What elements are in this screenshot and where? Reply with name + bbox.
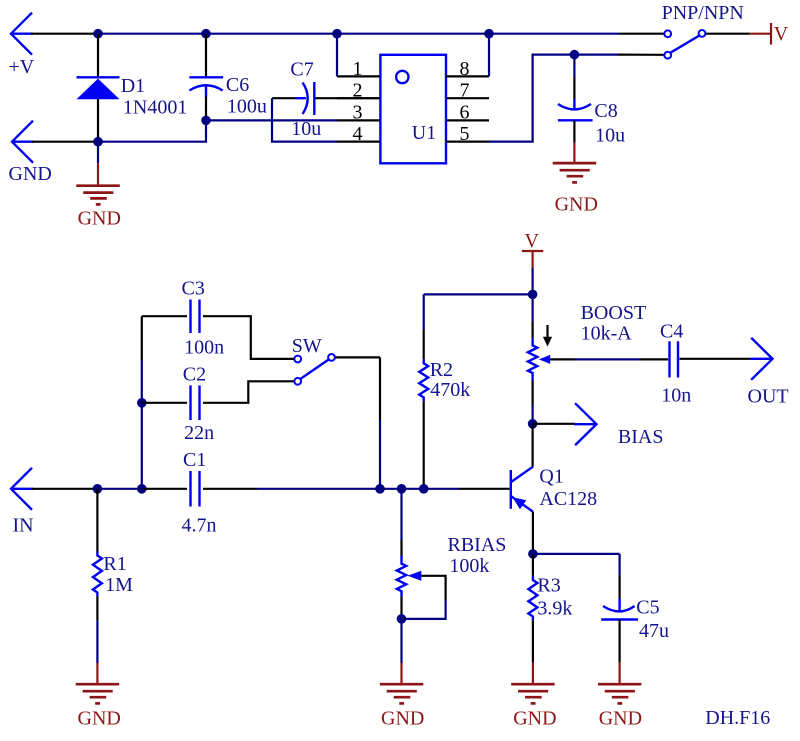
transistor Q1 (511, 467, 533, 512)
wire to BIAS arrow (533, 423, 576, 425)
wire C5 top (618, 554, 620, 576)
svg-text:R3: R3 (537, 575, 560, 597)
pin 3 (337, 119, 380, 121)
svg-text:R2: R2 (430, 359, 453, 381)
ground C8 (553, 163, 597, 182)
wire C8 bottom (573, 120, 575, 142)
black preset arrow (543, 325, 552, 347)
ground R3 (511, 684, 555, 703)
svg-text:GND: GND (513, 708, 556, 730)
wire C6 bottom (205, 97, 207, 121)
wire pin8 up (488, 34, 490, 77)
capacitor C7 (296, 82, 314, 115)
svg-text:1N4001: 1N4001 (123, 97, 187, 119)
wire D1 top (97, 34, 99, 77)
IC U1 box (380, 55, 446, 164)
svg-text:C2: C2 (183, 363, 206, 385)
svg-text:10n: 10n (661, 384, 691, 406)
wire pin1 up (336, 34, 338, 77)
svg-text:GND: GND (599, 708, 642, 730)
port arrow GND left (12, 121, 34, 163)
wire switch to V (706, 33, 750, 35)
wire D1 bottom (97, 99, 99, 142)
capacitor C4 (670, 341, 679, 377)
wire C3 right (203, 316, 294, 359)
wire collector up (531, 424, 533, 467)
wire V to junction (531, 268, 533, 294)
wire R3 top (532, 554, 534, 576)
wire base black (459, 488, 510, 490)
wire emitter to C5 (533, 553, 620, 555)
node C2 left (137, 398, 147, 408)
wire D1 ground stub (97, 142, 99, 164)
node emitter (528, 549, 538, 559)
wire C1 left (142, 488, 187, 490)
svg-text:47u: 47u (639, 620, 669, 642)
svg-text:10k-A: 10k-A (581, 322, 633, 344)
pin 6 (446, 119, 489, 121)
wire top rail black to switch (620, 33, 664, 35)
svg-text:R1: R1 (103, 553, 126, 575)
node C8 rail (570, 50, 580, 60)
svg-text:GND: GND (78, 207, 121, 229)
svg-text:OUT: OUT (748, 386, 789, 408)
pin 8 (446, 75, 489, 77)
wire wiper loop (421, 576, 445, 600)
wire wiper to C4 (550, 358, 575, 360)
potentiometer BOOST 10k-A (528, 338, 537, 380)
switch PNP/NPN (664, 30, 705, 59)
node RBIAS bottom (397, 614, 407, 624)
wire C3 left (142, 315, 187, 317)
svg-text:RBIAS: RBIAS (448, 534, 507, 556)
wire R3 bottom (532, 621, 534, 662)
node C6 bottom (201, 116, 211, 126)
wire gnd rail black (32, 141, 95, 143)
wire pot bottom (531, 381, 533, 406)
wire IN line black (32, 488, 94, 490)
power symbol V bottom (522, 251, 543, 268)
node C2C3 branch (137, 484, 147, 494)
wire emitter down (532, 512, 534, 554)
pot wiper arrow (539, 355, 550, 364)
wire C8 top (573, 55, 575, 77)
svg-text:BOOST: BOOST (581, 302, 647, 324)
wire top rail black segment from +V arrow (31, 33, 95, 35)
wire R2 top (423, 294, 425, 330)
svg-text:V: V (525, 230, 540, 252)
node SW drop (375, 484, 385, 494)
svg-text:22n: 22n (184, 422, 214, 444)
capacitor C6 (189, 77, 223, 97)
svg-text:5: 5 (460, 123, 470, 145)
svg-text:DH.F16: DH.F16 (705, 707, 770, 729)
svg-text:GND: GND (78, 708, 121, 730)
capacitor C1 (191, 471, 200, 507)
pin 1 (337, 75, 380, 77)
svg-text:4.7n: 4.7n (182, 515, 217, 537)
svg-text:GND: GND (381, 708, 424, 730)
svg-text:470k: 470k (430, 379, 470, 401)
diode D1 (77, 77, 120, 99)
wire C5 bottom (618, 620, 620, 663)
ground R1 (76, 684, 120, 703)
svg-text:2: 2 (353, 80, 363, 102)
svg-text:8: 8 (460, 58, 470, 80)
wire C7 right to pin2 (316, 97, 381, 99)
wire C2 left (142, 402, 187, 404)
power symbol V top right (750, 23, 771, 45)
wire pin5 to C8 branch (489, 55, 618, 142)
pot wiper arrow RBIAS (408, 571, 422, 581)
wire R2 bottom (423, 401, 425, 489)
pin 4 (337, 141, 380, 143)
svg-text:IN: IN (13, 515, 34, 537)
port arrow OUT (750, 338, 773, 380)
node BIAS junction (528, 419, 538, 429)
capacitor C2 (191, 385, 200, 420)
node R2 bottom (419, 484, 429, 494)
wire RBIAS ground (400, 619, 402, 663)
svg-text:100u: 100u (227, 96, 267, 118)
wire pot bottom (400, 597, 402, 619)
svg-text:10u: 10u (595, 124, 625, 146)
capacitor C3 (191, 300, 200, 334)
svg-text:C4: C4 (660, 321, 683, 343)
node R1 tap (93, 484, 103, 494)
svg-text:SW: SW (292, 335, 322, 357)
node top rail at pin8 (484, 29, 494, 39)
wire SW to drop (335, 356, 380, 358)
pin 2 (337, 97, 380, 99)
wire gnd rail navy (95, 120, 206, 141)
capacitor C8 (558, 99, 593, 120)
wire C6 top (205, 34, 207, 77)
svg-text:100n: 100n (184, 336, 224, 358)
wire RBIAS top (400, 489, 402, 540)
node V junction (528, 290, 538, 300)
wire pin3 net (206, 119, 337, 121)
svg-text:PNP/NPN: PNP/NPN (662, 2, 744, 24)
potentiometer RBIAS 100k (397, 556, 406, 597)
svg-text:C7: C7 (290, 59, 313, 81)
wire SW drop vertical (379, 357, 381, 420)
node RBIAS tap (397, 484, 407, 494)
resistor R2 (419, 359, 428, 401)
svg-text:U1: U1 (412, 122, 436, 144)
wire C1 right black (203, 488, 257, 490)
node top rail at C6 (201, 29, 211, 39)
pin 7 (446, 97, 489, 99)
wire across to R2 (424, 293, 533, 295)
svg-text:100k: 100k (449, 555, 489, 577)
svg-text:AC128: AC128 (539, 488, 597, 510)
svg-text:1M: 1M (105, 574, 133, 596)
svg-text:GND: GND (9, 163, 52, 185)
ground D1 (76, 186, 120, 205)
resistor R3 (528, 576, 537, 621)
wire C1 right navy to base (257, 488, 459, 490)
svg-text:C6: C6 (226, 74, 249, 96)
svg-text:V: V (774, 23, 789, 45)
ground RBIAS (380, 684, 424, 703)
capacitor C5 (601, 599, 638, 620)
svg-text:6: 6 (460, 102, 470, 124)
svg-text:3.9k: 3.9k (537, 598, 572, 620)
svg-text:10u: 10u (291, 118, 321, 140)
port arrow IN (11, 468, 33, 510)
svg-text:C3: C3 (182, 277, 205, 299)
wire R1 top (96, 489, 98, 552)
svg-text:1: 1 (353, 58, 363, 80)
svg-text:+V: +V (9, 56, 35, 78)
svg-text:D1: D1 (121, 75, 145, 97)
svg-text:C1: C1 (183, 449, 206, 471)
wire R1 bottom (96, 597, 98, 621)
svg-text:Q1: Q1 (539, 466, 563, 488)
node top rail at pin1 (332, 29, 342, 39)
node gnd rail at D1 (93, 137, 103, 147)
node top rail at D1 (93, 29, 103, 39)
svg-text:GND: GND (555, 194, 598, 216)
switch SW (294, 354, 335, 385)
svg-text:4: 4 (353, 123, 363, 145)
svg-text:7: 7 (460, 80, 470, 102)
wire IN line navy (94, 488, 142, 490)
svg-text:C8: C8 (594, 100, 617, 122)
wire C2 right (203, 381, 294, 403)
wire top rail navy 98 to 620 (95, 33, 620, 35)
svg-text:BIAS: BIAS (618, 426, 664, 448)
U1 index circle (396, 71, 408, 83)
port arrow BIAS (574, 403, 597, 445)
resistor R1 (93, 552, 102, 597)
wire pot top (531, 294, 533, 322)
wire C7 left leg down (272, 98, 338, 141)
svg-text:C5: C5 (636, 596, 659, 618)
svg-text:3: 3 (353, 102, 363, 124)
ground C5 (598, 684, 642, 703)
pin 5 (446, 141, 489, 143)
wire C2C3 left vertical (141, 316, 143, 360)
wire second rail black to switch (618, 53, 664, 55)
port arrow +V (11, 13, 33, 55)
wire C4 to OUT (680, 358, 751, 360)
wire C7 left (272, 97, 297, 99)
